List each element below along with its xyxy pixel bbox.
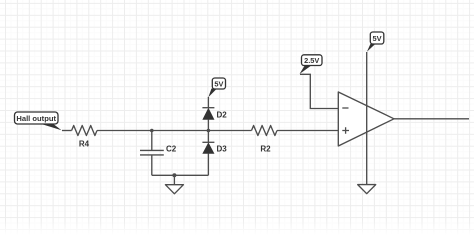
wire: bottom rail (152, 174, 209, 176)
svg-text:C2: C2 (166, 145, 177, 154)
resistor R2 (252, 126, 278, 136)
svg-text:Hall output: Hall output (16, 114, 56, 123)
op-amp U1 (338, 92, 394, 146)
5V callout (diodes) (208, 89, 217, 98)
node: ground junction (172, 173, 176, 177)
svg-text:D3: D3 (217, 145, 228, 154)
wire: 5V to D2 (207, 97, 209, 108)
5V callout (op-amp) (367, 44, 376, 52)
svg-text:R4: R4 (79, 140, 90, 149)
node: diode junction (207, 129, 211, 133)
svg-text:5V: 5V (214, 79, 223, 88)
Hall output callout (38, 123, 62, 130)
wire: hall output to R4 (62, 130, 72, 132)
node: capacitor junction (150, 129, 154, 133)
wire: 5V through op-amp to ground (366, 52, 368, 185)
svg-text:R2: R2 (260, 144, 271, 153)
wire: R2 to op-amp + input (277, 130, 338, 132)
resistor R4 (72, 126, 97, 136)
2.5V callout (300, 65, 313, 74)
svg-text:2.5V: 2.5V (304, 56, 319, 65)
wire: op-amp output (394, 118, 469, 120)
svg-text:5V: 5V (372, 34, 381, 43)
ground (below capacitor) (173, 175, 175, 184)
svg-text:D2: D2 (217, 111, 228, 120)
wire: R4 to R2 (97, 130, 252, 132)
capacitor C2 (151, 131, 153, 151)
wire: 2.5V to op-amp - input (300, 74, 338, 108)
ground (below op-amp) (358, 185, 376, 194)
diode D3 (207, 131, 209, 143)
diode D2 (202, 107, 214, 109)
